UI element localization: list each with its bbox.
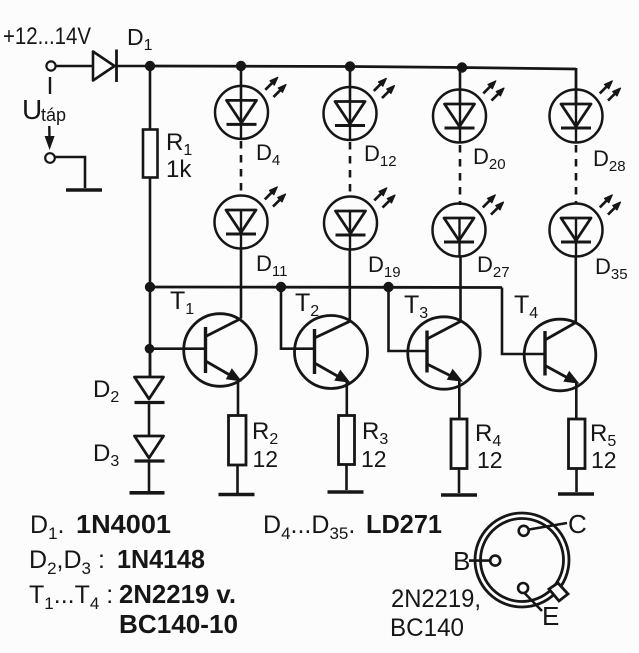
wire terminal to D1 [56, 65, 93, 68]
svg-text:2N2219,: 2N2219, [391, 585, 481, 613]
svg-text:BC140-10: BC140-10 [119, 609, 238, 639]
resistor R4 [451, 419, 467, 469]
LED D20 [433, 90, 486, 143]
wire dashed D12-D19 [349, 142, 352, 198]
ground R5 [558, 492, 594, 496]
wire column3 rail to D20 [459, 68, 462, 106]
wire T3 emitter to R4 [458, 380, 461, 420]
diode D3 [135, 436, 165, 461]
terminal supply- [45, 153, 55, 163]
LED D27 [433, 204, 486, 257]
resistor R3 [339, 416, 355, 465]
arrows D27 [483, 195, 504, 215]
node junction rail-R1 [145, 61, 155, 71]
wire T2 emitter to R3 [345, 381, 348, 416]
wire T4 emitter to R5 [575, 382, 578, 420]
wire bus to T3 base [389, 287, 428, 351]
wire D3 to ground [148, 461, 151, 491]
svg-text:D4...D35.LD271: D4...D35.LD271 [263, 509, 442, 543]
transistor T3 [408, 317, 480, 389]
svg-text:12: 12 [361, 446, 387, 472]
LED D19 [324, 197, 377, 250]
arrows D4 [265, 77, 286, 97]
svg-text:B: B [453, 546, 470, 576]
node junction bus-T2 [276, 282, 286, 292]
svg-text:12: 12 [253, 446, 279, 472]
pin E [518, 583, 528, 593]
transistor package outline [475, 513, 569, 607]
wire pin C to label [529, 523, 567, 530]
wire column1 rail to D4 [240, 66, 243, 101]
wire T1 base node to D2 [149, 349, 152, 378]
node junction rail-col1 [236, 61, 246, 71]
transistor T2 [295, 316, 368, 389]
transistor T4 [524, 319, 596, 391]
pin B [490, 556, 500, 566]
wire dashed D28-D35 [575, 145, 578, 204]
wire R4 to ground [458, 469, 461, 494]
arrows D19 [374, 188, 395, 208]
svg-text:1k: 1k [166, 156, 192, 183]
wire D35 to T4 collector [574, 256, 577, 323]
diode D2 [135, 377, 165, 403]
node junction rail-col2 [345, 61, 355, 71]
wire through D27 [458, 218, 460, 256]
wire column2 rail to D12 [349, 66, 352, 102]
wire R1 to bus [149, 177, 152, 287]
diode D1 [93, 50, 150, 83]
wire R2 to ground [236, 465, 239, 493]
wire through D11 [240, 210, 242, 248]
arrows D11 [265, 187, 286, 207]
wire pin B to label [469, 559, 490, 562]
resistor R1 [143, 130, 158, 178]
svg-text:BC140: BC140 [390, 614, 464, 642]
svg-text:T1...T4 :2N2219 v.: T1...T4 :2N2219 v. [29, 579, 236, 613]
wire T1 emitter to R2 [237, 380, 240, 416]
svg-text:U: U [22, 94, 42, 125]
svg-text:E: E [542, 601, 559, 631]
node junction bus-R1 [145, 282, 155, 292]
ground R2 [219, 493, 255, 497]
terminal supply+ [46, 61, 55, 70]
wire dashed D20-D27 [459, 145, 462, 205]
svg-text:táp: táp [41, 105, 66, 125]
LED D11 [215, 196, 268, 249]
node junction rail-col3 [457, 62, 467, 72]
resistor R5 [569, 419, 586, 469]
arrows D35 [600, 195, 621, 215]
LED D12 [324, 87, 377, 140]
svg-text:+12...14V: +12...14V [3, 23, 91, 50]
ground D3 [130, 491, 165, 495]
node junction T1 base [145, 344, 155, 354]
wire terminal to ground [55, 157, 85, 188]
resistor R2 [229, 416, 247, 466]
wire through D35 [575, 218, 577, 256]
wire base bus [150, 286, 502, 289]
LED D4 [215, 86, 268, 139]
wire D2 to D3 [148, 403, 151, 436]
pin C [519, 526, 529, 536]
wire dashed D4-D11 [240, 141, 243, 197]
wire column4 rail corner down to D28 [575, 68, 578, 105]
arrows D28 [600, 81, 621, 101]
wire bus to T2 base [281, 287, 315, 349]
LED D35 [550, 204, 603, 257]
wire rail to R1 [149, 66, 152, 130]
wire R5 to ground [575, 469, 578, 493]
ground R4 [441, 493, 477, 497]
arrows D20 [483, 81, 504, 101]
node junction bus-T3 [383, 282, 393, 292]
wire bus to T4 base [502, 288, 545, 355]
wire through D20 [459, 104, 461, 143]
arrow U tap down [45, 126, 55, 150]
wire stub below terminal [49, 77, 51, 94]
wire D27 to T3 collector [459, 256, 462, 321]
transistor T1 [150, 314, 257, 387]
wire pin E to label [524, 593, 542, 612]
wire through D4 [240, 100, 242, 139]
LED D28 [550, 90, 603, 143]
ground R3 [328, 490, 364, 494]
svg-text:12: 12 [477, 447, 503, 473]
wire top rail [150, 66, 576, 69]
wire bus to T1 base node [149, 287, 152, 377]
svg-text:C: C [568, 509, 587, 539]
ground supply [66, 188, 102, 191]
wire D11 to T1 collector [240, 248, 243, 319]
wire R3 to ground [345, 465, 348, 491]
svg-text:12: 12 [591, 447, 617, 473]
arrows D12 [374, 78, 395, 98]
package tab [549, 583, 568, 601]
wire through D19 [349, 211, 351, 249]
wire D19 to T2 collector [348, 249, 351, 321]
wire through D12 [349, 101, 351, 140]
wire through D28 [575, 104, 577, 143]
